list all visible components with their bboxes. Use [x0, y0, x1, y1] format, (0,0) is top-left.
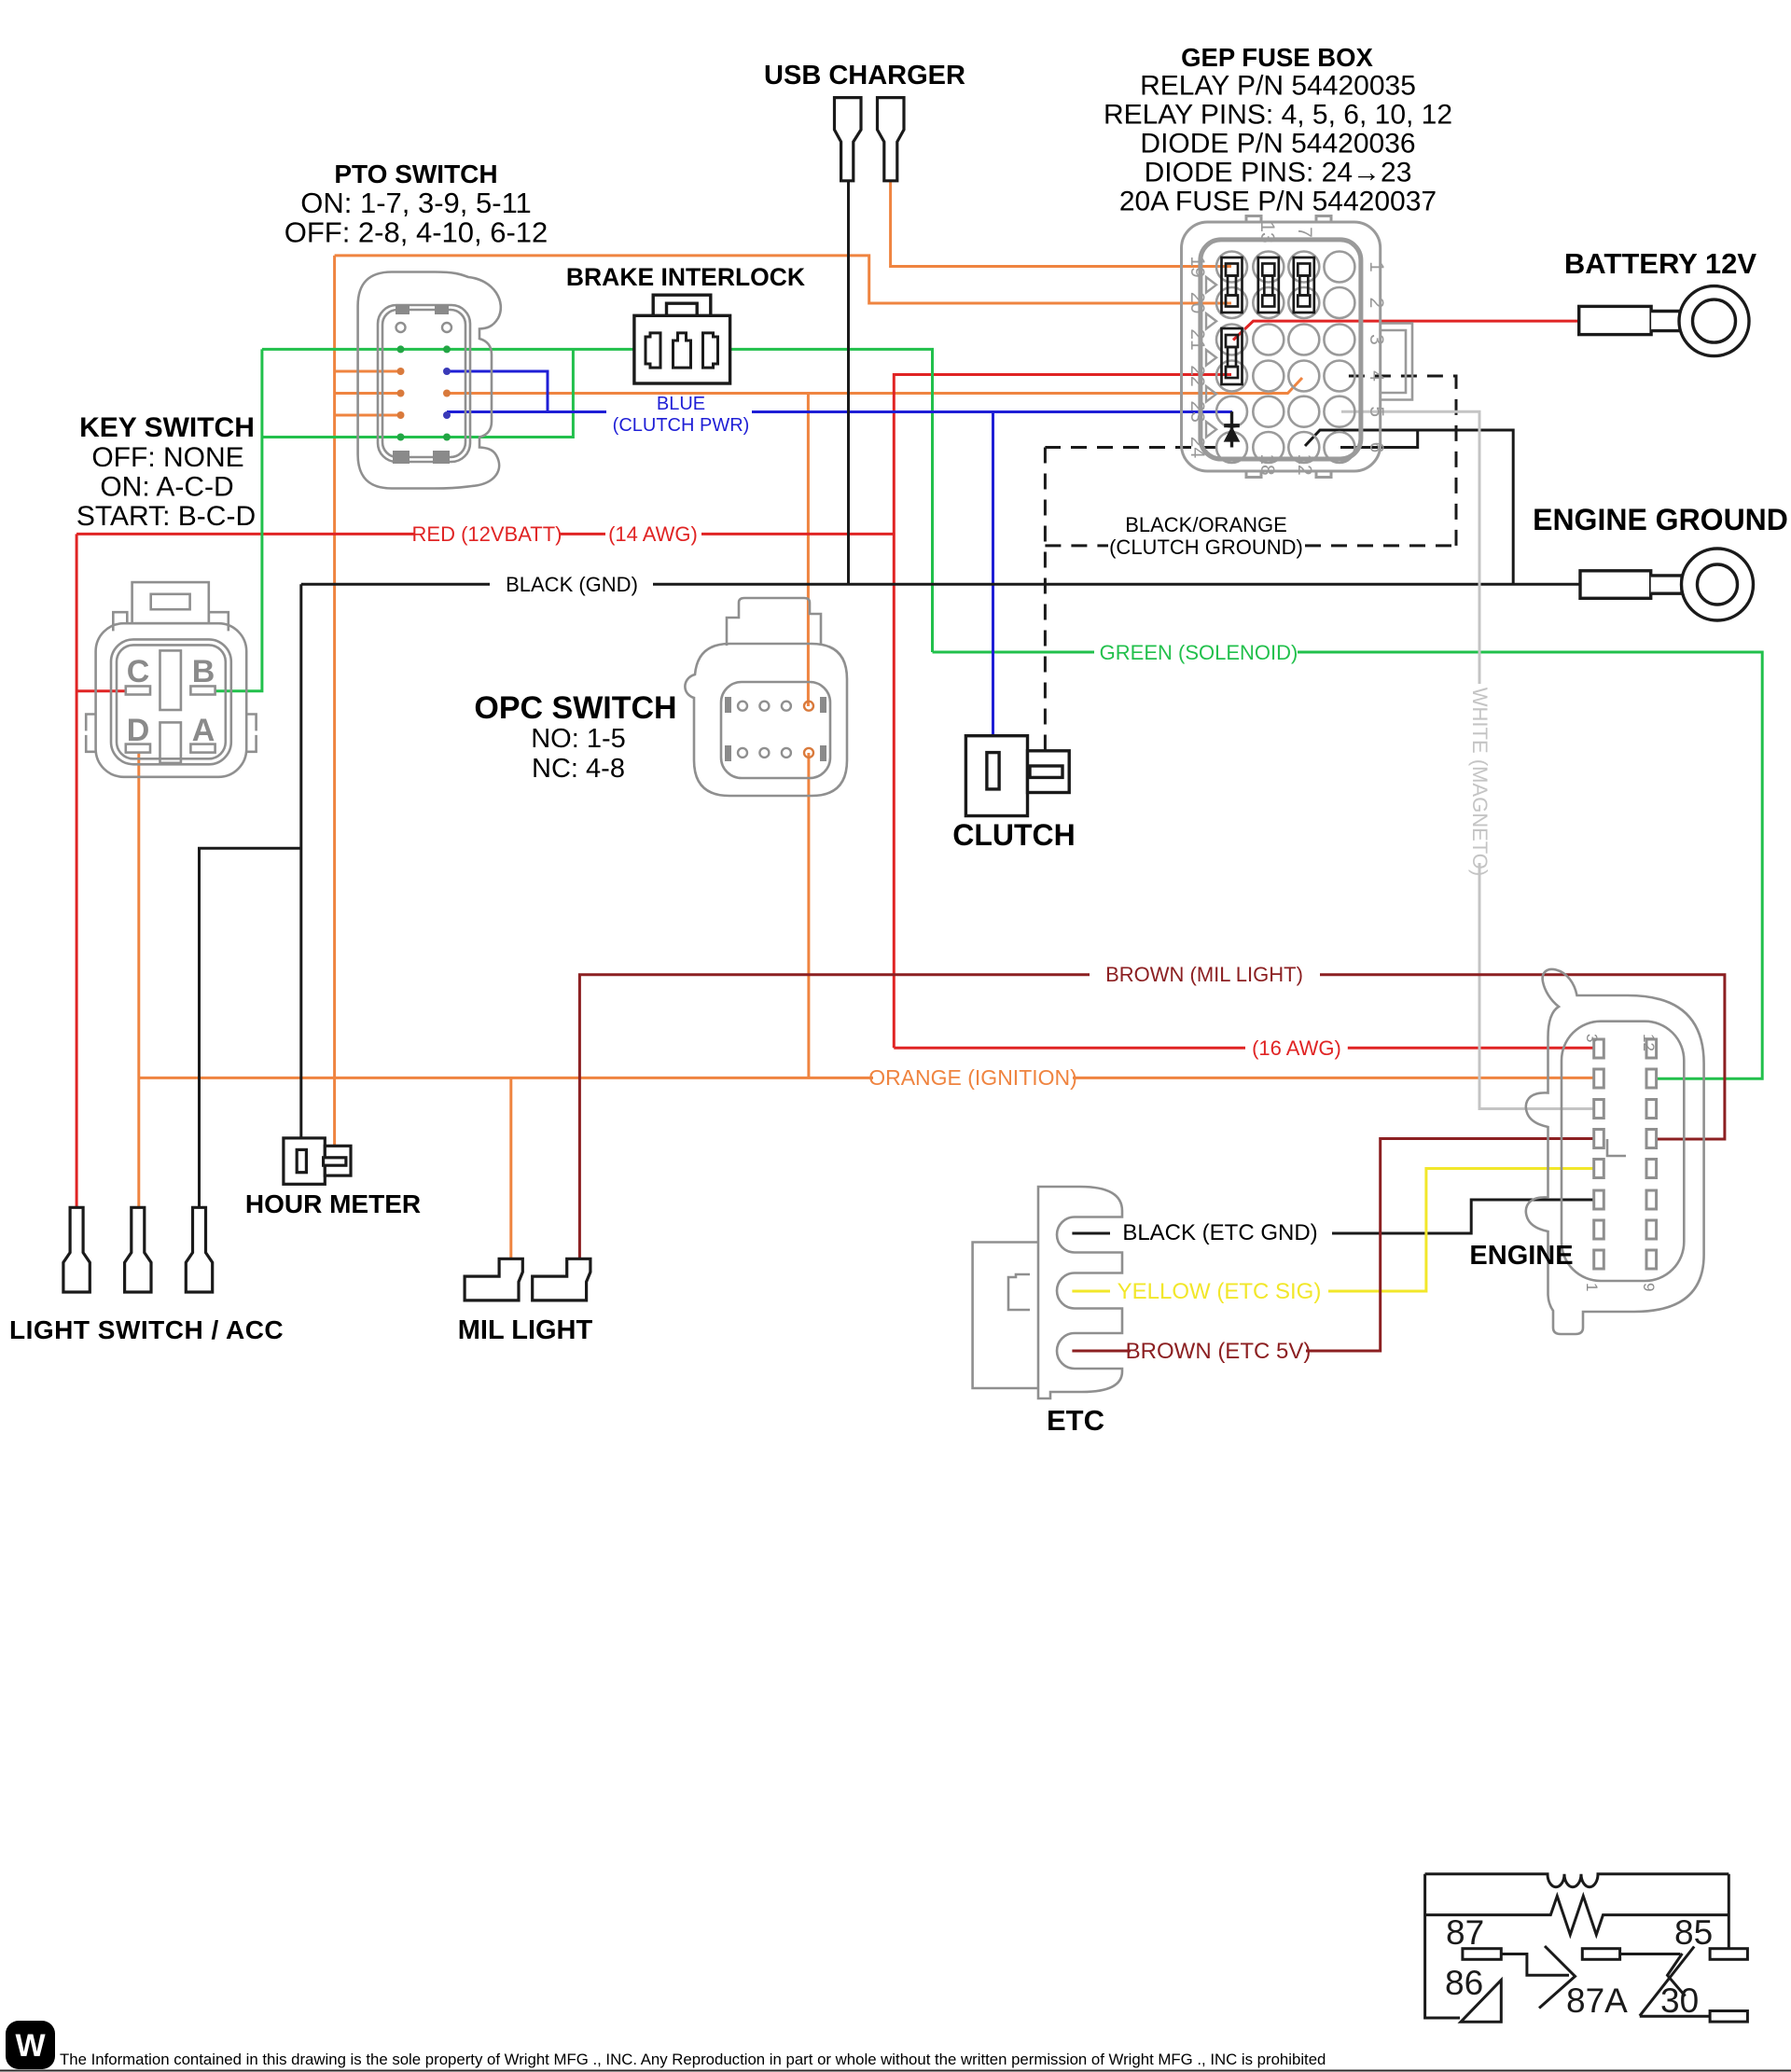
label KEY SWITCH block	[76, 412, 256, 532]
relay pin 85 terminal	[1710, 1949, 1747, 1960]
PTO pin dots	[396, 323, 452, 441]
brake interlock pin 3	[703, 333, 718, 368]
relay pin labels	[1445, 1913, 1713, 2020]
svg-text:CLUTCH: CLUTCH	[952, 818, 1076, 852]
OPC pin dots	[738, 702, 813, 758]
svg-text:19: 19	[1187, 256, 1208, 277]
wire red key switch C drop to light switch terminal 1	[76, 534, 78, 1207]
wire red battery: fuse to battery lug	[1233, 321, 1580, 340]
svg-text:21: 21	[1187, 328, 1208, 350]
svg-text:RELAY PINS: 4, 5, 6, 10, 12: RELAY PINS: 4, 5, 6, 10, 12	[1104, 100, 1452, 131]
svg-text:GEP FUSE BOX: GEP FUSE BOX	[1181, 43, 1373, 72]
wire orange ignition: PTO top feed to fuse pin20	[335, 256, 1231, 303]
connector clutch	[965, 736, 1069, 816]
engine pin number marks	[1583, 1034, 1658, 1291]
svg-text:C: C	[127, 654, 150, 689]
svg-text:3: 3	[1583, 1034, 1601, 1042]
wire orange drop to MIL light left terminal	[509, 1078, 512, 1259]
svg-text:4: 4	[1366, 370, 1387, 382]
svg-text:ORANGE (IGNITION): ORANGE (IGNITION)	[868, 1065, 1077, 1090]
wire black fuse pin12 to ground bus	[1305, 430, 1513, 584]
svg-text:3: 3	[1366, 334, 1387, 345]
wire orange ignition bus right segment to engine pin	[1073, 1077, 1593, 1079]
relay right rail to pin85	[1728, 1874, 1730, 1949]
relay resistor	[1425, 1896, 1729, 1934]
wire orange key switch D drop to light switch terminal 2	[137, 753, 140, 1211]
svg-text:1: 1	[1583, 1283, 1601, 1291]
svg-text:RED (12VBATT): RED (12VBATT)	[412, 522, 562, 546]
wire red 16awg to engine pin1	[894, 1047, 1593, 1050]
wire red 12vbatt horizontal segments with label gaps	[76, 533, 894, 535]
relay switch arm	[1640, 1947, 1694, 2016]
connector GEP fuse box	[1182, 216, 1413, 478]
svg-text:ON: A-C-D: ON: A-C-D	[100, 472, 233, 503]
relay pin 30 terminal	[1710, 2011, 1747, 2023]
svg-text:12: 12	[1640, 1034, 1658, 1051]
wire green PTO row6	[262, 349, 574, 437]
svg-text:23: 23	[1187, 401, 1208, 423]
relay left rail	[1425, 1874, 1460, 2018]
svg-text:BLUE: BLUE	[657, 394, 705, 414]
svg-text:ENGINE: ENGINE	[1469, 1241, 1573, 1271]
usb charger terminal 2	[878, 98, 905, 181]
wire orange ignition bus left segment	[139, 1077, 873, 1079]
diode D1 in fuse box	[1224, 411, 1241, 447]
svg-text:22: 22	[1187, 365, 1208, 386]
svg-text:START: B-C-D: START: B-C-D	[76, 501, 256, 532]
svg-text:12: 12	[1294, 453, 1315, 475]
svg-text:WHITE (MAGNETO): WHITE (MAGNETO)	[1468, 688, 1492, 876]
wire orange ignition: PTO left vertical down to hour meter	[333, 256, 336, 1161]
brake interlock pin 1	[646, 333, 660, 368]
wire green solenoid to engine right pin2	[933, 652, 1763, 1078]
fuse F3	[1294, 257, 1314, 313]
svg-text:YELLOW (ETC SIG): YELLOW (ETC SIG)	[1118, 1279, 1322, 1304]
wire dashed clutch ground vertical to clutch tab	[1044, 448, 1047, 752]
svg-text:87A: 87A	[1566, 1982, 1628, 2020]
svg-text:OPC SWITCH: OPC SWITCH	[474, 690, 676, 726]
wire red 12vbatt: fuse pin22 to key switch riser	[894, 375, 1231, 1049]
relay coil K1	[1425, 1874, 1729, 1887]
relay arm arrowhead	[1668, 1954, 1686, 1996]
svg-text:OFF: 2-8, 4-10, 6-12: OFF: 2-8, 4-10, 6-12	[285, 216, 548, 249]
bottom border line	[0, 2070, 1791, 2072]
svg-text:(14 AWG): (14 AWG)	[608, 522, 698, 546]
svg-text:OFF: NONE: OFF: NONE	[91, 442, 243, 473]
fuse F2	[1258, 257, 1279, 313]
fuse F4 lower	[1222, 328, 1243, 384]
RELAY	[1425, 1874, 1748, 2023]
logo Wright W	[6, 2021, 55, 2069]
svg-text:PTO SWITCH: PTO SWITCH	[334, 160, 497, 188]
connector ETC	[973, 1187, 1122, 1398]
MIL light flag terminal right	[533, 1258, 590, 1300]
svg-text:BRAKE INTERLOCK: BRAKE INTERLOCK	[566, 263, 805, 291]
light switch blade terminal 1	[63, 1207, 90, 1292]
svg-text:24: 24	[1187, 437, 1208, 459]
svg-text:The Information contained in t: The Information contained in this drawin…	[60, 2051, 1326, 2068]
svg-text:(CLUTCH PWR): (CLUTCH PWR)	[613, 415, 750, 436]
svg-text:(16 AWG): (16 AWG)	[1252, 1036, 1341, 1060]
svg-text:NO: 1-5: NO: 1-5	[531, 724, 626, 754]
engine pin rects right column	[1646, 1039, 1657, 1269]
svg-text:NC: 4-8: NC: 4-8	[532, 754, 625, 784]
svg-text:ETC: ETC	[1047, 1404, 1104, 1437]
wire black light switch terminal3 riser	[200, 848, 301, 1210]
wire blue drop to clutch pin	[992, 412, 994, 755]
wire green PTO row2 through brake interlock to solenoid riser	[262, 349, 933, 652]
wire dashed black/orange clutch ground: fuse pin24 leftward	[1045, 446, 1217, 449]
wire brown MIL light to engine right pin4	[579, 975, 1725, 1259]
wire gray white magneto from fuse pin5 to engine pin3	[1341, 411, 1593, 1108]
light switch blade terminal 3	[186, 1207, 212, 1292]
fuse box pin numbers	[1187, 221, 1387, 475]
svg-text:BLACK (GND): BLACK (GND)	[506, 573, 638, 596]
wire red key switch C pin stub	[76, 689, 127, 692]
brake interlock pin 2	[673, 333, 691, 368]
svg-text:1: 1	[1366, 261, 1387, 272]
relay 87A pole line	[1620, 1953, 1681, 1955]
svg-text:86: 86	[1445, 1964, 1483, 2002]
svg-text:B: B	[192, 654, 215, 689]
connector key switch housing top	[86, 582, 256, 777]
svg-text:GREEN (SOLENOID): GREEN (SOLENOID)	[1100, 641, 1298, 664]
connector brake interlock body	[634, 295, 730, 383]
svg-text:MIL LIGHT: MIL LIGHT	[458, 1315, 593, 1345]
svg-text:RELAY P/N 54420035: RELAY P/N 54420035	[1140, 71, 1416, 102]
wire orange stub PTO pin row5	[335, 414, 401, 417]
connector engine harness	[1526, 969, 1704, 1334]
usb charger terminal 1	[835, 98, 862, 181]
wire black GND bus to engine ground lug	[301, 583, 1580, 586]
svg-text:ENGINE GROUND: ENGINE GROUND	[1533, 503, 1788, 536]
key switch pin letters	[127, 654, 215, 748]
svg-text:18: 18	[1256, 453, 1278, 475]
battery ring terminal	[1579, 286, 1749, 356]
wire orange ignition: PTO right pin row4 to fuse pin 10 diagonal	[447, 378, 1302, 394]
svg-text:2: 2	[1366, 298, 1387, 309]
label PTO SWITCH block	[285, 160, 548, 249]
svg-text:(CLUTCH GROUND): (CLUTCH GROUND)	[1109, 535, 1303, 559]
svg-text:HOUR METER: HOUR METER	[245, 1189, 421, 1218]
label OPC SWITCH block	[474, 690, 676, 784]
svg-text:A: A	[192, 713, 215, 748]
svg-text:BROWN (MIL LIGHT): BROWN (MIL LIGHT)	[1105, 963, 1303, 986]
svg-text:5: 5	[1366, 406, 1387, 417]
relay pin 87 terminal	[1463, 1949, 1501, 1960]
wire orange branch down to OPC switch pin	[807, 394, 810, 707]
connector J1 PTO switch	[358, 272, 501, 489]
wire orange stub PTO pin row3	[335, 370, 401, 373]
svg-text:BLACK (ETC GND): BLACK (ETC GND)	[1122, 1220, 1317, 1245]
svg-text:BLACK/ORANGE: BLACK/ORANGE	[1125, 513, 1287, 536]
OPC inner corner marks	[725, 697, 826, 761]
svg-text:6: 6	[1366, 442, 1387, 453]
svg-text:USB CHARGER: USB CHARGER	[764, 61, 965, 90]
engine pin rects left column	[1594, 1039, 1604, 1269]
wire black fuse pin6 jog	[1340, 430, 1418, 448]
relay 87 dogleg to contact	[1501, 1954, 1569, 1976]
relay 30 line	[1640, 2015, 1710, 2018]
engine ground ring terminal	[1580, 549, 1754, 620]
svg-text:7: 7	[1294, 227, 1315, 238]
svg-text:D: D	[127, 713, 150, 748]
svg-text:13: 13	[1256, 221, 1278, 243]
wire dashed clutch ground horizontal with label gap	[1045, 544, 1456, 547]
wire blue PTO pin row3 jog	[447, 371, 548, 412]
light switch blade terminal 2	[125, 1207, 151, 1292]
wire dashed clutch ground from fuse pin4	[1341, 376, 1456, 546]
wire blue clutch pwr PTO row5 to fuse pin23	[447, 410, 1232, 413]
wire orange OPC bottom pin down to ignition bus	[807, 753, 810, 1078]
svg-text:BATTERY 12V: BATTERY 12V	[1564, 247, 1756, 280]
svg-text:9: 9	[1640, 1283, 1658, 1291]
wire green key switch B to PTO vertical	[215, 349, 262, 690]
svg-text:30: 30	[1660, 1982, 1699, 2020]
fuse box pin circles	[1216, 252, 1354, 464]
fuse F1 20A	[1222, 257, 1243, 313]
svg-text:BROWN (ETC 5V): BROWN (ETC 5V)	[1126, 1339, 1312, 1364]
wire black USB charger ground drop	[847, 181, 850, 585]
svg-text:87: 87	[1446, 1913, 1484, 1952]
svg-text:W: W	[15, 2028, 46, 2064]
wire yellow ETC SIG to engine pin5	[1072, 1169, 1593, 1292]
relay 86 triangle	[1461, 1981, 1501, 2023]
connector hour meter	[284, 1138, 351, 1184]
label GEP FUSE BOX block	[1104, 43, 1452, 217]
wire brown ETC 5V to engine pin4	[1072, 1139, 1593, 1352]
connector OPC switch	[685, 598, 847, 796]
wire orange ignition: USB charger terminal2 drop to fuse pin19	[891, 181, 1231, 267]
svg-text:KEY SWITCH: KEY SWITCH	[79, 412, 255, 443]
relay pin 87A terminal	[1582, 1949, 1619, 1960]
wire black ETC GND to engine pin6	[1072, 1200, 1593, 1233]
wire orange stub PTO pin row4	[335, 392, 401, 395]
svg-text:20A FUSE P/N 54420037: 20A FUSE P/N 54420037	[1119, 187, 1437, 217]
svg-text:ON: 1-7, 3-9, 5-11: ON: 1-7, 3-9, 5-11	[300, 187, 532, 219]
MIL light flag terminal left	[465, 1258, 522, 1300]
svg-text:DIODE P/N 54420036: DIODE P/N 54420036	[1140, 129, 1415, 160]
svg-text:20: 20	[1187, 292, 1208, 313]
svg-text:LIGHT SWITCH / ACC: LIGHT SWITCH / ACC	[9, 1315, 284, 1344]
PTO inner corner tabs	[393, 305, 450, 464]
relay 87A arrow	[1539, 1946, 1576, 2009]
svg-text:DIODE PINS: 24→23: DIODE PINS: 24→23	[1145, 158, 1412, 188]
fuse box left-edge wedge marks	[1206, 277, 1216, 438]
svg-text:85: 85	[1674, 1913, 1713, 1952]
wire black hour meter drop	[299, 584, 302, 1150]
